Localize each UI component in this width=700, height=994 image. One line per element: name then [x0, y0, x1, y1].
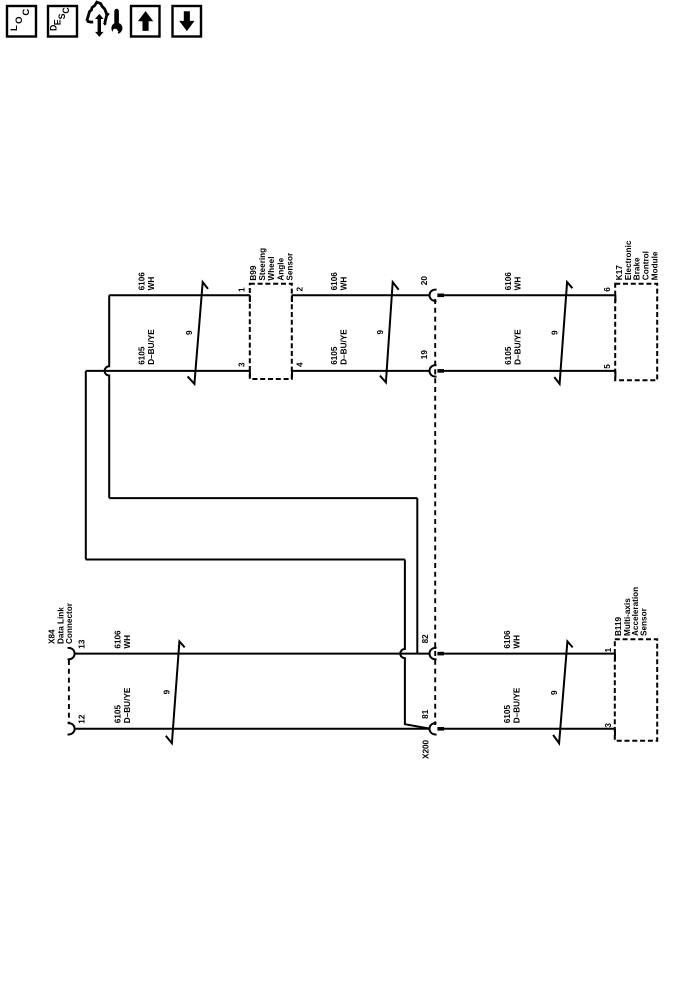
title X84 Data Link Connector	[48, 602, 74, 644]
svg-text:1: 1	[237, 287, 246, 292]
svg-text:X200: X200	[422, 739, 431, 759]
routing wire 6106 WH vertical V1 with crossover hump	[105, 295, 110, 498]
X200 pin82 female arc	[430, 648, 437, 659]
svg-text:81: 81	[421, 709, 430, 719]
svg-text:3: 3	[604, 723, 613, 728]
svg-text:O: O	[14, 16, 25, 23]
wire 6106 WH : B99 pin1 left segment	[109, 294, 250, 296]
X200 pin19 female arc	[430, 365, 437, 376]
X200 dashed line	[434, 299, 436, 725]
twisted pair symbol T2	[380, 282, 399, 382]
label wire 6106 WH segment Bb	[503, 630, 522, 649]
svg-text:Control: Control	[641, 251, 650, 280]
title K17 Electronic Brake Control Module	[615, 240, 659, 280]
wire 6106 WH : X200.82 to B119.1	[443, 653, 615, 655]
svg-text:82: 82	[421, 634, 430, 644]
svg-text:Sensor: Sensor	[286, 252, 295, 281]
wire 6106 WH : X84.13 to X200.82	[75, 653, 431, 655]
svg-text:Wheel: Wheel	[267, 256, 276, 280]
button up arrow	[131, 6, 160, 37]
routing wire 6106 WH vertical V2	[416, 498, 418, 653]
label wire 6105 D-BU/YE segment Bb	[503, 687, 522, 723]
connector B99 box	[250, 284, 292, 379]
svg-text:6106: 6106	[113, 630, 122, 649]
svg-text:9: 9	[551, 330, 560, 335]
label wire 6105 D-BU/YE segment Aa	[138, 329, 157, 365]
pin tick K17.6	[614, 295, 616, 302]
X200 pin20 male dash	[437, 293, 444, 297]
X200 pin20 female arc	[430, 290, 437, 301]
svg-text:6105: 6105	[138, 346, 147, 365]
svg-text:Angle: Angle	[276, 257, 285, 280]
X84 dashed line	[68, 660, 70, 723]
svg-text:9: 9	[550, 690, 559, 695]
label wire 6106 WH segment Ba	[113, 630, 131, 649]
wire 6105 D-BU/YE : B99 pin3 left segment	[86, 370, 250, 372]
routing wire 6105 horizontal H2	[86, 559, 405, 561]
svg-text:WH: WH	[513, 635, 522, 649]
pin tick B99.4	[291, 371, 293, 378]
svg-text:Electronic: Electronic	[624, 240, 633, 280]
svg-text:D–BU/YE: D–BU/YE	[513, 687, 522, 723]
svg-text:Steering: Steering	[258, 248, 267, 281]
twisted pair symbol TB1	[166, 641, 185, 743]
wire 6106 WH : B99 pin2 to X200.20	[292, 294, 430, 296]
wire 6106 WH : X200.20 to K17.6	[443, 294, 615, 296]
svg-text:2: 2	[296, 287, 305, 292]
pin tick B119.1	[614, 654, 616, 661]
svg-text:4: 4	[296, 362, 305, 367]
wire 6105 D-BU/YE : X84.12 to X200.81	[75, 728, 430, 730]
pin tick B99.2	[291, 295, 293, 302]
twisted pair symbol TB2	[553, 641, 573, 743]
svg-text:1: 1	[604, 647, 613, 652]
svg-text:6105: 6105	[504, 346, 513, 365]
svg-text:B99: B99	[249, 265, 258, 280]
title B99 Steering Wheel Angle Sensor	[249, 248, 295, 281]
twisted pair symbol T3	[554, 282, 572, 384]
pin tick K17.5	[614, 371, 616, 378]
routing wire 6105 vertical V3	[85, 371, 87, 560]
svg-text:B119: B119	[614, 616, 623, 636]
X84 pin12 arc	[68, 723, 75, 734]
svg-text:5: 5	[603, 364, 612, 369]
svg-text:9: 9	[376, 330, 385, 335]
svg-text:13: 13	[77, 639, 86, 649]
svg-text:Module: Module	[650, 251, 659, 280]
svg-text:9: 9	[185, 330, 194, 335]
icon double arrow	[95, 14, 104, 37]
svg-text:20: 20	[420, 276, 429, 286]
label wire 6105 D-BU/YE segment Ac	[504, 329, 523, 365]
svg-text:Connector: Connector	[65, 602, 74, 644]
svg-text:WH: WH	[514, 277, 523, 291]
svg-text:D–BU/YE: D–BU/YE	[123, 687, 132, 723]
svg-text:6106: 6106	[138, 272, 147, 291]
X200 pin81 female arc	[430, 723, 437, 734]
X200 pin81 male dash	[437, 727, 444, 731]
title B119 Multi-axis Acceleration Sensor	[614, 587, 649, 636]
svg-text:WH: WH	[339, 277, 348, 291]
svg-text:6106: 6106	[503, 630, 512, 649]
routing wire 6105 vertical V4 with crossover hump	[400, 560, 429, 729]
label wire 6106 WH segment Ac	[504, 272, 523, 291]
svg-text:6106: 6106	[330, 272, 339, 291]
pin tick B119.3	[614, 729, 616, 736]
twisted pair symbol T1	[188, 282, 208, 384]
connector K17 box	[615, 284, 657, 381]
icon wrench	[114, 9, 119, 25]
svg-text:6105: 6105	[113, 705, 122, 724]
X200 pin82 male dash	[437, 652, 444, 656]
svg-text:WH: WH	[123, 635, 132, 649]
svg-text:6: 6	[603, 287, 612, 292]
label wire 6106 WH segment Ab	[330, 272, 349, 291]
pin tick B99.3	[249, 371, 251, 378]
label wire 6105 D-BU/YE segment Ab	[330, 329, 349, 365]
X200 pin19 male dash	[437, 369, 444, 373]
label wire 6105 D-BU/YE segment Ba	[113, 687, 131, 723]
svg-text:6105: 6105	[503, 705, 512, 724]
button down arrow	[173, 6, 202, 37]
button DESC	[48, 6, 77, 37]
icon vehicle navigator outline	[87, 2, 123, 37]
svg-text:C: C	[61, 7, 71, 14]
svg-text:L: L	[9, 25, 20, 31]
label wire 6106 WH segment Aa	[138, 272, 157, 291]
wire 6105 D-BU/YE : X200.81 to B119.3	[443, 728, 615, 730]
svg-text:6106: 6106	[504, 272, 513, 291]
connector B119 box	[615, 639, 657, 741]
button LOC	[7, 6, 36, 37]
svg-text:D–BU/YE: D–BU/YE	[514, 329, 523, 365]
svg-text:12: 12	[77, 714, 86, 724]
wire 6105 D-BU/YE : B99 pin4 to X200.19	[292, 370, 430, 372]
svg-text:Sensor: Sensor	[640, 607, 649, 636]
svg-text:6105: 6105	[330, 346, 339, 365]
routing wire 6106 WH horizontal H1	[109, 497, 417, 499]
svg-text:C: C	[21, 9, 32, 16]
svg-text:K17: K17	[615, 265, 624, 280]
wire 6105 D-BU/YE : X200.19 to K17.5	[443, 370, 615, 372]
pin tick B99.1	[249, 295, 251, 302]
svg-text:19: 19	[420, 350, 429, 360]
svg-text:D–BU/YE: D–BU/YE	[147, 329, 156, 365]
svg-text:9: 9	[163, 689, 172, 694]
svg-text:3: 3	[237, 362, 246, 367]
svg-text:D–BU/YE: D–BU/YE	[339, 329, 348, 365]
X84 pin13 arc	[68, 648, 75, 659]
svg-text:WH: WH	[147, 277, 156, 291]
